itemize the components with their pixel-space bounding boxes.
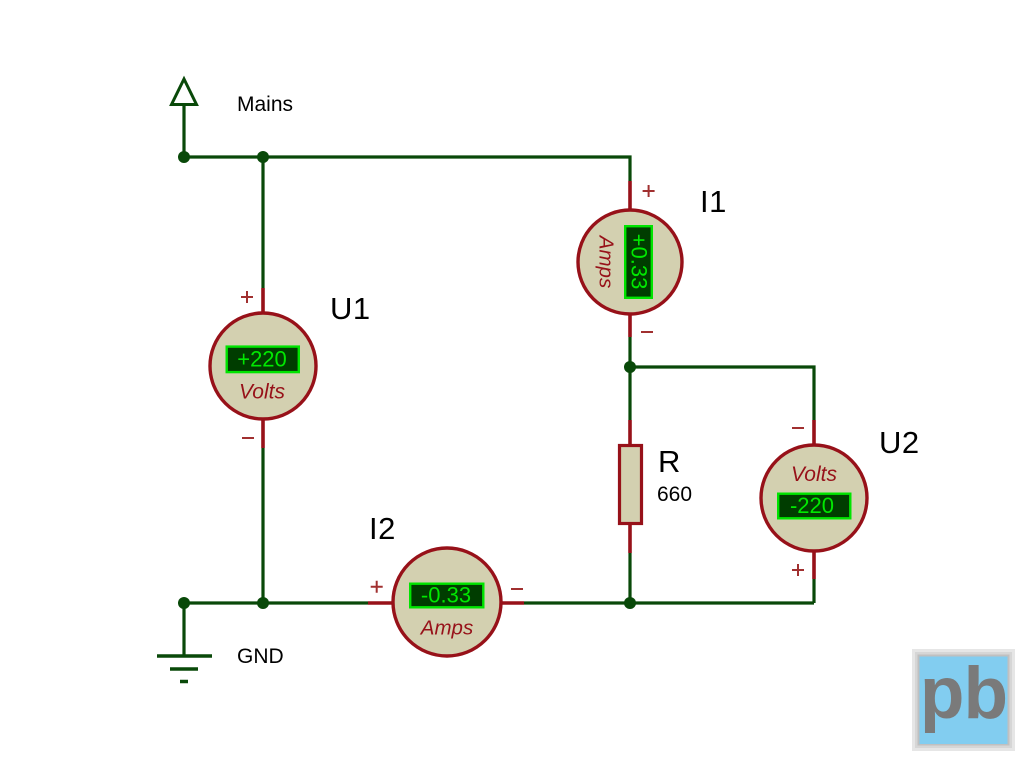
svg-text:-0.33: -0.33 <box>421 583 471 608</box>
svg-text:U2: U2 <box>879 425 920 460</box>
svg-text:+0.33: +0.33 <box>627 234 652 290</box>
svg-text:R: R <box>658 444 680 479</box>
svg-text:Volts: Volts <box>791 463 837 486</box>
svg-text:I2: I2 <box>369 511 396 546</box>
svg-text:Amps: Amps <box>419 617 473 640</box>
svg-text:GND: GND <box>237 645 284 668</box>
svg-text:Volts: Volts <box>239 381 285 404</box>
svg-text:Mains: Mains <box>237 93 293 116</box>
svg-text:I1: I1 <box>700 184 727 219</box>
svg-text:Amps: Amps <box>595 234 618 288</box>
svg-text:-220: -220 <box>790 493 834 518</box>
svg-text:+220: +220 <box>237 347 287 372</box>
svg-text:U1: U1 <box>330 291 371 326</box>
svg-text:660: 660 <box>657 483 692 506</box>
svg-text:pb: pb <box>920 653 1007 734</box>
